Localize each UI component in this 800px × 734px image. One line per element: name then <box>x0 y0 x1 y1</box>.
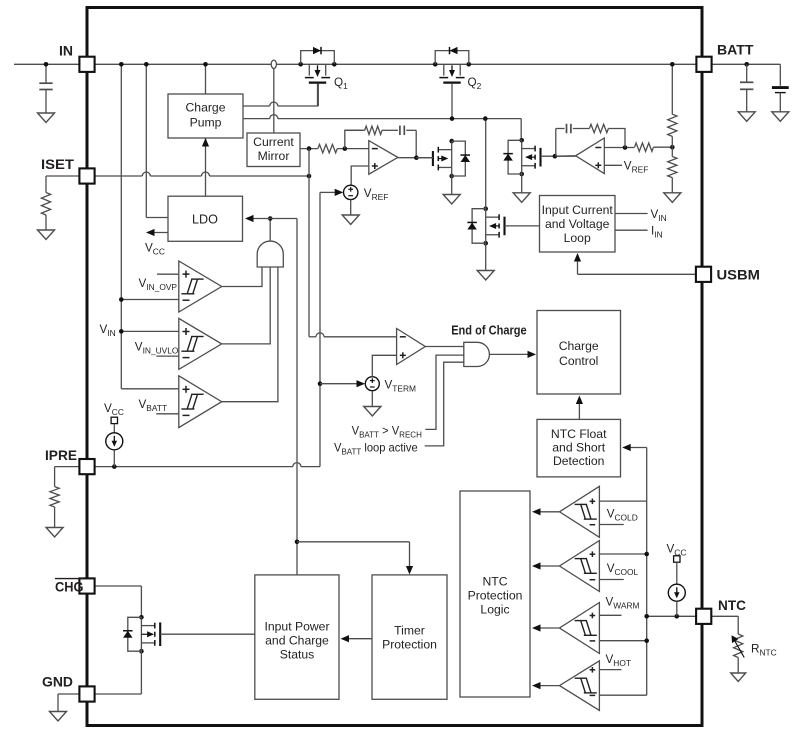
svg-text:Pump: Pump <box>190 116 222 130</box>
svg-text:Loop: Loop <box>564 231 591 245</box>
svg-text:ISET: ISET <box>41 156 74 172</box>
svg-text:Charge: Charge <box>186 101 226 115</box>
svg-text:NTC Float: NTC Float <box>551 427 607 441</box>
svg-text:USBM: USBM <box>717 267 761 283</box>
svg-text:GND: GND <box>42 674 73 690</box>
svg-text:Control: Control <box>559 354 598 368</box>
svg-text:End of Charge: End of Charge <box>451 322 527 337</box>
svg-text:NTC: NTC <box>482 575 507 589</box>
svg-text:BATT: BATT <box>717 42 754 58</box>
svg-text:IPRE: IPRE <box>45 447 77 463</box>
svg-text:LDO: LDO <box>192 213 218 227</box>
svg-text:Logic: Logic <box>480 603 509 617</box>
svg-text:Protection: Protection <box>382 638 437 652</box>
svg-text:CHG: CHG <box>55 579 84 595</box>
svg-text:Mirror: Mirror <box>258 149 290 163</box>
svg-text:Charge: Charge <box>559 339 599 353</box>
svg-text:and Charge: and Charge <box>265 634 329 648</box>
svg-text:Current: Current <box>253 135 294 149</box>
svg-text:IN: IN <box>59 43 73 59</box>
svg-text:and Short: and Short <box>552 441 605 455</box>
svg-text:NTC: NTC <box>718 597 746 613</box>
svg-text:Timer: Timer <box>394 624 425 638</box>
svg-text:Status: Status <box>280 648 315 662</box>
svg-text:and Voltage: and Voltage <box>545 217 610 231</box>
svg-text:Input Power: Input Power <box>264 620 329 634</box>
svg-text:Protection: Protection <box>468 589 523 603</box>
svg-text:Input Current: Input Current <box>542 203 614 217</box>
svg-text:Detection: Detection <box>553 454 605 468</box>
